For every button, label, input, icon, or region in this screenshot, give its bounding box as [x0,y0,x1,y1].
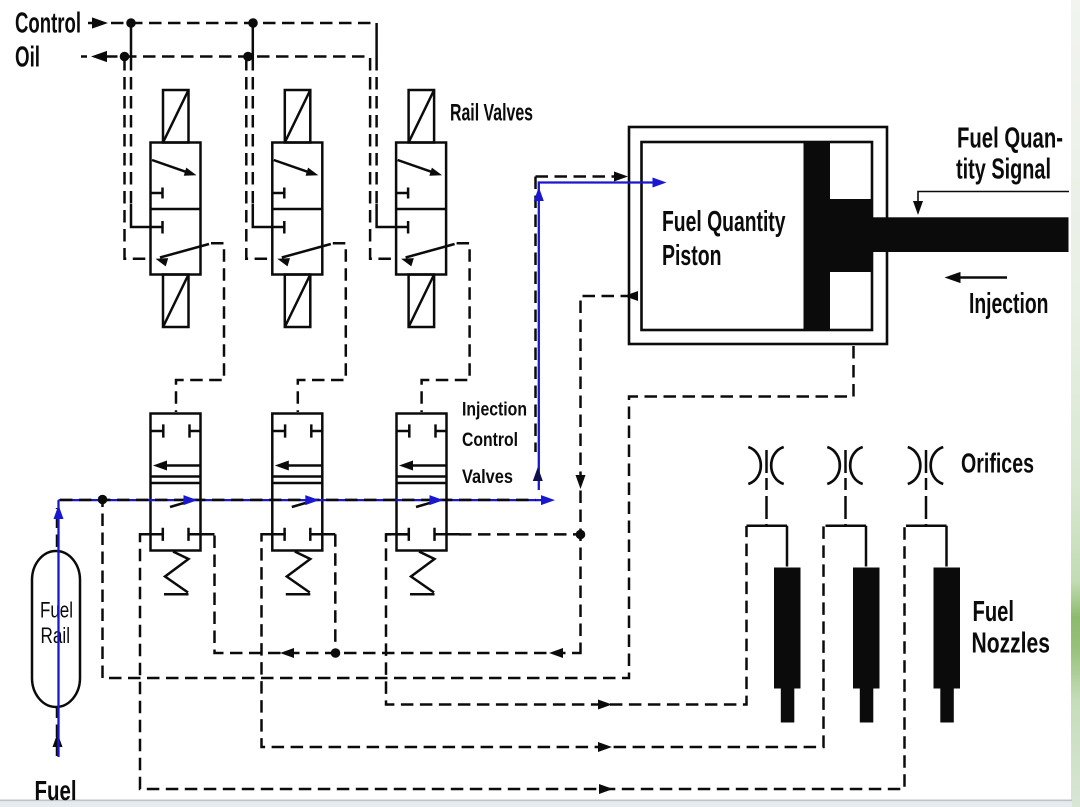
svg-text:Injection: Injection [969,288,1049,320]
blue arrowheads [54,505,64,519]
blue main: rail up, along, up to piston [57,500,59,757]
bottom strip [0,800,1072,802]
fuel nozzle 3 [906,526,960,723]
svg-text:tity Signal: tity Signal [956,154,1051,186]
orifice 3 [908,447,943,526]
label Fuel Quantity Piston [662,206,786,272]
svg-text:Piston: Piston [662,240,722,272]
fuel quantity piston inner box [642,142,873,330]
rail valve 3 [370,23,470,412]
rail valve 2 [246,23,345,412]
piston rod (black) [872,217,1069,252]
svg-text:Oil: Oil [15,42,40,74]
arrow up on piston riser [533,467,543,481]
label Fuel Nozzles [972,596,1051,660]
return manifold row A [215,535,581,653]
label Injection Control Valves [462,400,527,489]
piston hub (black) [829,199,873,272]
fuel nozzle 2 [826,526,880,723]
svg-text:Control: Control [15,8,81,40]
wire ICV1 return port down to row A [189,533,215,536]
svg-text:Rail Valves: Rail Valves [450,100,533,127]
injection direction arrow [956,276,1007,279]
wire ICV1 supply port to fuel nozzle 3 [140,526,905,789]
arrow down on piston outlet line [576,475,586,489]
wire dashed vertical beside blue supply [534,177,537,453]
injection control valve 1 [140,414,214,595]
wire ICV3 return port to piston outlet line [459,533,576,536]
orifice 1 [748,447,783,526]
piston plate (black) [804,142,831,330]
signal pointer line [918,192,1069,207]
svg-text:Fuel Quantity: Fuel Quantity [662,206,786,238]
node Control Oil label [15,8,81,74]
svg-text:Fuel: Fuel [35,775,77,806]
junction dot on fuel line [98,495,108,505]
wire ICV2 supply port to fuel nozzle 2 [262,526,824,747]
svg-text:Fuel: Fuel [40,598,73,623]
wire ICV3 supply port to fuel nozzle 1 [386,526,747,705]
junction dot piston outlet / ICV3 return [576,530,586,540]
svg-text:Fuel Quan-: Fuel Quan- [957,123,1063,155]
injection control valve 3 [386,414,460,595]
label Fuel Quantity Signal [956,123,1063,186]
svg-text:Valves: Valves [462,467,513,488]
svg-text:Injection: Injection [462,400,527,421]
wire ICV2 return port down to row A [334,534,337,648]
wire piston outlet (arrow pointing left out of box) [581,296,634,649]
wire control oil to piston (dashed, ends with arrow at box) [536,175,615,178]
wire control-oil supply header [88,22,98,25]
fuel supply black dashed backbone (over blue) [60,499,536,502]
svg-text:Orifices: Orifices [961,448,1034,479]
junction dot row A / ICV2 return [331,648,341,658]
fuel quantity piston outer box [629,127,887,344]
injection control valve 2 [262,414,336,595]
rail valve 1 [125,23,225,412]
fuel nozzle 1 [747,526,801,723]
green edge strip right [1071,0,1080,807]
fuel inlet arrow (black) [53,733,63,747]
junction dots on headers [120,18,258,61]
fuel rail vessel [32,551,80,707]
piston bottom drain to fuel line junction [103,346,854,678]
svg-text:Fuel: Fuel [973,596,1015,628]
orifice 2 [827,447,862,526]
fuel inlet dashed line (hidden behind rail vessel) [56,508,59,756]
svg-text:Rail: Rail [41,623,71,648]
wire control-oil return header [81,55,87,58]
svg-text:Control: Control [462,430,518,451]
blue fuel supply line [59,183,661,758]
svg-text:Nozzles: Nozzles [972,628,1051,660]
